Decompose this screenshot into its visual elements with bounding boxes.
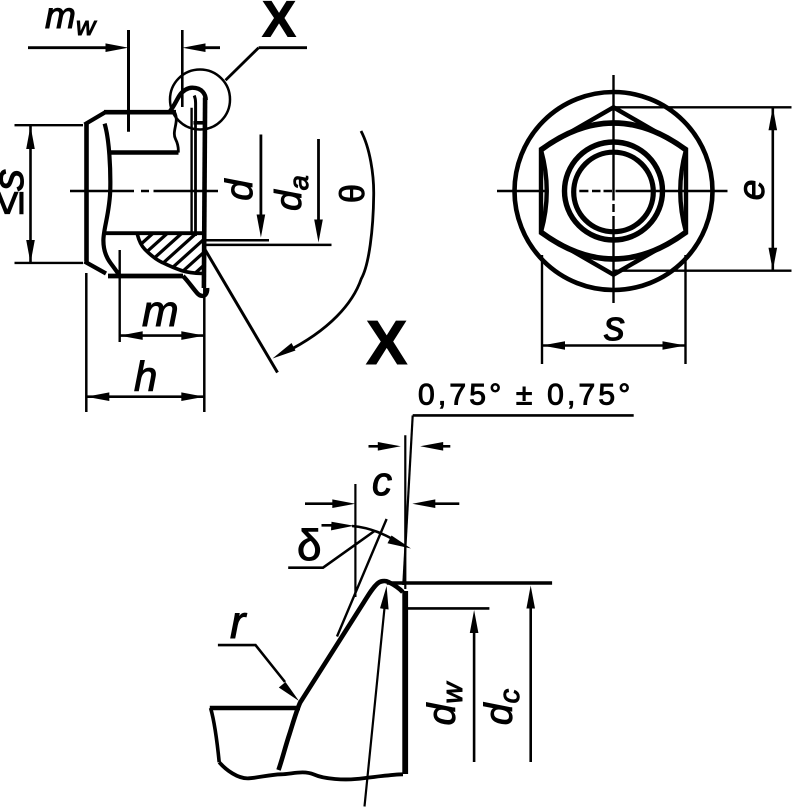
svg-text:X: X	[366, 309, 407, 378]
s arrow right	[663, 341, 686, 350]
thread major circle	[565, 142, 663, 240]
horizontal centerline (dash-dot)	[497, 190, 728, 192]
bottom edge of hex	[108, 274, 183, 279]
h dimension line	[86, 395, 204, 398]
m_w dimension line right	[200, 46, 220, 49]
theta angle vertex line	[204, 247, 278, 373]
d_a arrow line	[317, 139, 320, 220]
top-left chamfer slant	[85, 112, 107, 125]
vertical centerline (dash-dot)	[612, 75, 614, 303]
svg-text:d: d	[219, 178, 261, 201]
rim right edge (bearing face in detail)	[402, 591, 408, 774]
d_a arrowhead	[314, 220, 323, 243]
svg-text:X: X	[262, 0, 296, 48]
d arrow line	[259, 135, 262, 216]
delta arc arrowhead end	[388, 536, 412, 549]
delta angle arc	[322, 525, 405, 545]
0.75 angle arrow left	[369, 445, 379, 448]
tilted line B with up arrow	[365, 608, 385, 807]
d_a reference line	[203, 244, 332, 247]
m_w extension line right	[181, 30, 184, 107]
s arrow left	[542, 341, 565, 350]
m_w extension line left	[127, 30, 130, 132]
vertical reference line	[404, 435, 406, 589]
svg-text:h: h	[134, 353, 157, 400]
m_w arrow left	[106, 43, 129, 52]
flange rim outline (radius r, cone edge, rounded tip)	[279, 581, 403, 770]
bottom wavy break line	[219, 762, 403, 779]
theta arc arrowhead	[273, 343, 296, 359]
tilted bearing plane line A	[403, 415, 412, 585]
rim inner bottom bar	[194, 121, 206, 125]
left hex face chamfer arc	[103, 124, 119, 276]
d arrowhead	[257, 215, 266, 238]
section hatching	[92, 233, 240, 275]
delta leader	[288, 531, 374, 568]
h extension line right (bearing face ext)	[203, 288, 206, 412]
m_w arrow right	[183, 43, 206, 52]
chamfer arc right face	[680, 150, 686, 232]
r leader arrowhead	[279, 682, 299, 701]
thread line upper (bore silhouette)	[111, 150, 179, 155]
thread hole circle	[574, 152, 654, 232]
0.75 angle arrow right	[443, 445, 450, 448]
c extension line	[354, 484, 356, 597]
centerline (side view, dash-dot)	[70, 190, 218, 192]
≤s extension line bottom	[15, 262, 84, 264]
≤s dimension line	[29, 126, 32, 263]
m extension line	[118, 250, 120, 342]
s extension line left	[541, 255, 543, 364]
e extension line bottom	[614, 270, 792, 272]
bottom-left chamfer slant	[85, 262, 107, 274]
hexagon	[541, 107, 686, 274]
chamfer arc left face	[541, 150, 547, 232]
s dimension line	[542, 344, 686, 347]
chamfer arc top (across vertex)	[542, 123, 686, 150]
tolerance leader horizontal	[413, 414, 634, 417]
svg-text:≤s: ≤s	[0, 169, 33, 215]
X1 leader horizontal	[259, 46, 307, 49]
bottom flange bulge (washer face lobe)	[183, 276, 207, 296]
≤s arrow top	[26, 126, 35, 149]
flange cone top curve to rim tip	[169, 88, 206, 113]
insert pocket curve (hatch lower boundary)	[137, 235, 202, 274]
h extension line left	[85, 273, 88, 412]
left break line	[211, 708, 220, 762]
svg-text:δ: δ	[297, 521, 322, 570]
≤s arrow bottom	[26, 240, 35, 263]
m dimension line	[120, 334, 205, 337]
svg-text:m: m	[142, 287, 179, 336]
nut outline: left face edge	[84, 124, 89, 262]
hatch top line	[106, 231, 202, 235]
r leader	[218, 645, 285, 682]
svg-text:0,75° ± 0,75°: 0,75° ± 0,75°	[418, 379, 634, 412]
d_c arrow	[529, 608, 532, 762]
e extension line top	[614, 106, 792, 108]
d_c reference line	[387, 581, 552, 585]
flange bearing surface line	[210, 706, 300, 711]
flange outer circle	[515, 92, 713, 290]
theta arc	[285, 131, 374, 353]
e arrow top	[769, 107, 778, 130]
m arrow left	[120, 331, 143, 340]
e arrow bottom	[769, 248, 778, 271]
m arrow right	[181, 331, 204, 340]
inner vertical line (insert bore)	[194, 123, 197, 236]
svg-text:r: r	[230, 596, 247, 648]
d reference line	[203, 239, 269, 242]
c arrow right	[412, 499, 435, 508]
svg-text:s: s	[604, 302, 625, 349]
svg-text:c: c	[372, 460, 392, 504]
svg-text:θ: θ	[334, 184, 372, 203]
s extension line right	[684, 255, 686, 364]
≤s extension line top	[15, 124, 84, 126]
c dimension line left	[305, 502, 333, 505]
chamfer arc bottom	[542, 233, 686, 260]
inner vertical line (thread)	[190, 108, 192, 233]
partial-section wavy break line	[174, 112, 178, 152]
bearing face edge (right, thick)	[204, 98, 205, 289]
rim inner edge (horn inner)	[194, 96, 195, 124]
h arrow left	[86, 392, 109, 401]
svg-text:e: e	[731, 180, 772, 201]
h arrow right	[181, 392, 204, 401]
d_w reference line	[407, 607, 490, 610]
e dimension line	[771, 108, 774, 270]
cone tangent line	[337, 519, 387, 637]
delta arc arrowhead start	[331, 522, 354, 531]
detail callout circle	[170, 70, 230, 130]
X1 leader diagonal	[226, 48, 259, 81]
c arrow left	[332, 499, 355, 508]
m_w dimension line left	[28, 46, 110, 49]
top edge of hex	[104, 110, 176, 115]
d_w arrow	[473, 632, 476, 762]
c dimension line right	[435, 502, 459, 505]
